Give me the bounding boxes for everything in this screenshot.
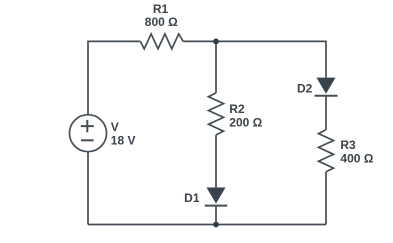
wire right branch mid (D2 to R3) bbox=[325, 96, 327, 130]
svg-text:V: V bbox=[111, 120, 119, 134]
svg-text:R1: R1 bbox=[153, 2, 169, 16]
svg-text:R3: R3 bbox=[340, 138, 356, 152]
svg-text:200 Ω: 200 Ω bbox=[229, 116, 262, 130]
wire middle branch upper (node A to R2) bbox=[215, 41, 217, 93]
svg-text:400 Ω: 400 Ω bbox=[340, 152, 373, 166]
wire bottom rail bbox=[88, 224, 326, 226]
diode D1 bbox=[205, 188, 227, 206]
svg-text:18 V: 18 V bbox=[111, 133, 136, 147]
node B junction (bottom rail) bbox=[213, 222, 219, 228]
svg-text:D1: D1 bbox=[184, 191, 200, 205]
diode D2 bbox=[315, 78, 338, 96]
wire right branch lower (R3 to bottom rail) bbox=[325, 172, 327, 225]
wire middle branch mid (R2 to D1) bbox=[215, 135, 217, 188]
wire left rail lower (source to bottom rail) bbox=[87, 152, 89, 225]
wire middle branch lower (D1 to bottom node) bbox=[215, 206, 217, 225]
minus terminal mark bbox=[81, 139, 94, 141]
svg-text:R2: R2 bbox=[229, 102, 245, 116]
svg-text:D2: D2 bbox=[297, 82, 313, 96]
wire top right (R1 to node A and right rail) bbox=[183, 41, 326, 77]
node A junction (top, R1/R2/D2 net) bbox=[213, 39, 219, 45]
svg-text:800 Ω: 800 Ω bbox=[145, 15, 178, 29]
wire top left (from left rail to R1) bbox=[88, 41, 140, 114]
plus terminal mark bbox=[81, 125, 94, 127]
resistor R3 bbox=[319, 130, 334, 172]
resistor R2 bbox=[209, 93, 224, 135]
voltage source V bbox=[70, 115, 107, 152]
resistor R1 bbox=[140, 34, 183, 49]
